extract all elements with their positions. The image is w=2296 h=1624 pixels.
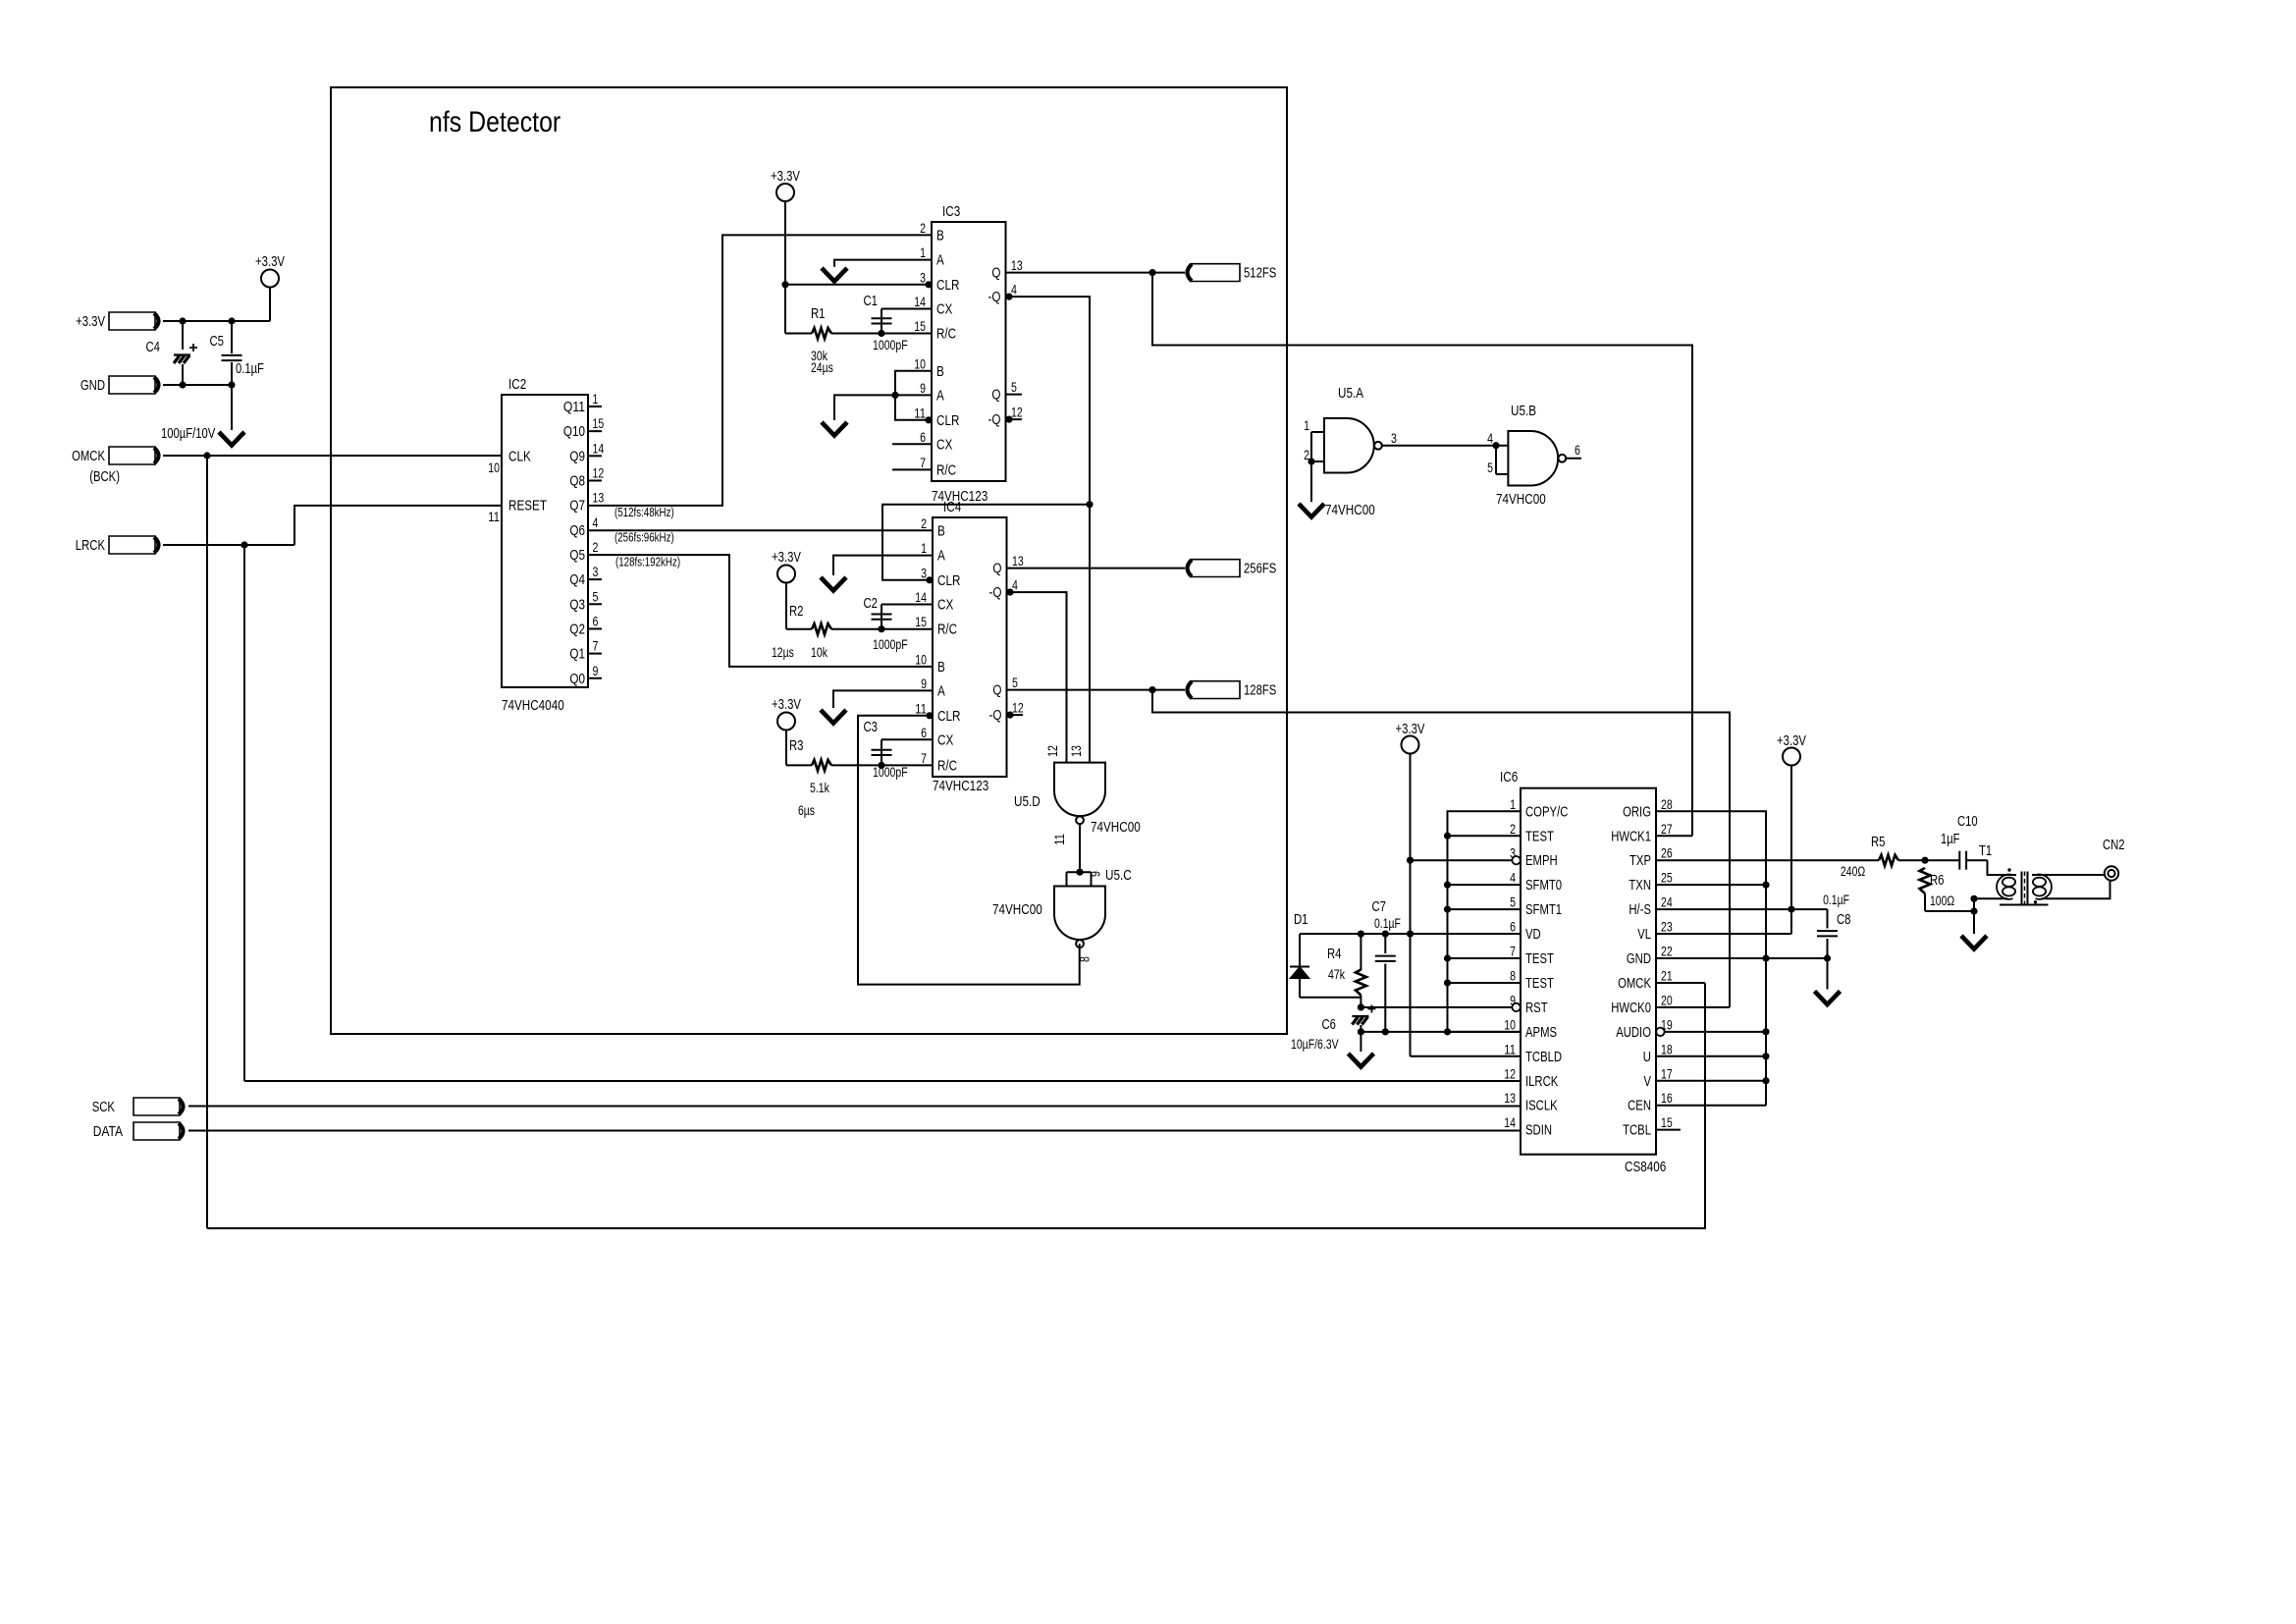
svg-text:240Ω: 240Ω: [1841, 864, 1865, 879]
wire 128FS to HWCK0: [1152, 690, 1730, 1007]
svg-text:Q6: Q6: [569, 522, 585, 539]
svg-text:6µs: 6µs: [798, 803, 815, 818]
ground at IC4 pin 9: [821, 710, 846, 724]
power +3.3V for R1: [776, 184, 794, 201]
svg-text:10µF/6.3V: 10µF/6.3V: [1291, 1037, 1339, 1052]
svg-text:6: 6: [593, 614, 599, 628]
svg-text:Q: Q: [992, 561, 1001, 577]
svg-text:12: 12: [593, 465, 605, 480]
svg-text:Q9: Q9: [569, 448, 585, 464]
IC3 pin 10 B / 11 CLR tie: [895, 371, 932, 420]
svg-text:Q11: Q11: [563, 399, 585, 415]
svg-text:CN2: CN2: [2103, 838, 2125, 853]
IC6 RST pin9 bubble: [1512, 1003, 1520, 1011]
svg-text:2: 2: [593, 540, 599, 555]
svg-text:-Q: -Q: [988, 411, 1001, 428]
svg-text:SFMT0: SFMT0: [1525, 878, 1562, 893]
svg-text:B: B: [937, 522, 945, 539]
ground at IC3 pin 9: [822, 422, 847, 436]
svg-text:GND: GND: [80, 378, 105, 394]
svg-text:1: 1: [921, 541, 927, 556]
svg-text:9: 9: [920, 381, 926, 396]
svg-text:1: 1: [1510, 797, 1516, 812]
svg-text:R6: R6: [1930, 873, 1945, 889]
svg-text:C2: C2: [864, 596, 879, 612]
svg-text:SFMT1: SFMT1: [1525, 902, 1562, 918]
svg-text:Q2: Q2: [569, 621, 585, 637]
connector 128FS: [1188, 681, 1193, 698]
IC2 pin 14 Q9: [588, 455, 602, 457]
svg-text:4: 4: [1510, 871, 1516, 886]
svg-text:+3.3V: +3.3V: [1777, 733, 1806, 749]
svg-text:C3: C3: [864, 720, 879, 735]
svg-text:OMCK: OMCK: [1618, 976, 1651, 992]
svg-text:CX: CX: [936, 436, 952, 453]
svg-text:Q10: Q10: [563, 423, 585, 440]
svg-text:5.1k: 5.1k: [810, 781, 829, 795]
svg-text:5: 5: [1011, 380, 1017, 395]
IC3 -Q pin4 wire to U5.D pin13: [1005, 294, 1012, 300]
svg-text:A: A: [936, 252, 944, 269]
svg-text:20: 20: [1661, 993, 1673, 1007]
U5.B input pins 4,5: [1495, 446, 1497, 474]
wire SCK to ISCLK: [188, 1106, 1521, 1108]
svg-text:TXP: TXP: [1629, 853, 1651, 869]
svg-text:18: 18: [1661, 1042, 1673, 1056]
svg-text:23: 23: [1661, 920, 1673, 935]
wire T1 secondary top to CN2: [2032, 874, 2105, 876]
svg-text:U5.B: U5.B: [1511, 403, 1536, 419]
svg-text:74VHC4040: 74VHC4040: [502, 697, 564, 714]
svg-text:APMS: APMS: [1525, 1025, 1557, 1041]
wire OMCK vertical down to bottom return: [206, 456, 208, 1228]
svg-text:+3.3V: +3.3V: [1396, 722, 1425, 737]
svg-text:C6: C6: [1322, 1017, 1337, 1033]
svg-text:2: 2: [1510, 822, 1516, 837]
capacitor C7 0.1uF: [1384, 934, 1386, 953]
svg-text:Q: Q: [991, 387, 1000, 404]
svg-text:V: V: [1644, 1074, 1652, 1090]
svg-text:5: 5: [1012, 676, 1018, 690]
T1 core: [2021, 872, 2023, 905]
svg-text:H/-S: H/-S: [1629, 902, 1651, 918]
wire TCBL pin15 stub: [1656, 1129, 1681, 1131]
svg-text:0.1µF: 0.1µF: [1823, 893, 1849, 907]
svg-text:TEST: TEST: [1525, 951, 1554, 967]
T1 base line: [2000, 904, 2049, 906]
svg-text:C4: C4: [146, 340, 161, 355]
svg-text:15: 15: [1661, 1115, 1673, 1130]
svg-text:AUDIO: AUDIO: [1616, 1025, 1651, 1041]
svg-text:C8: C8: [1837, 912, 1851, 928]
svg-text:11: 11: [488, 510, 500, 524]
svg-text:16: 16: [1661, 1091, 1673, 1106]
svg-text:VL: VL: [1637, 927, 1651, 943]
wire IC6 right tie bus ORIG TXN GND AUDIO U V CEN: [1656, 811, 1766, 1105]
IC4 pin 11 CLR wire from U5.C output: [926, 712, 933, 719]
svg-text:CLR: CLR: [937, 708, 961, 725]
svg-text:13: 13: [1011, 258, 1023, 273]
svg-text:15: 15: [593, 416, 605, 431]
svg-text:TEST: TEST: [1525, 829, 1554, 844]
svg-text:CX: CX: [936, 301, 952, 318]
IC3 74VHC123 monostable: [932, 222, 1006, 481]
resistor R2 10k: [786, 628, 812, 630]
wire VL pin23: [1656, 933, 1791, 935]
IC3 pin 6 CX stub: [892, 443, 932, 445]
wire OMCK to IC2 CLK: [163, 455, 502, 457]
svg-text:74VHC123: 74VHC123: [933, 778, 988, 794]
svg-text:IC4: IC4: [943, 499, 961, 515]
IC2 pin 12 Q8: [588, 479, 602, 481]
IC2 pin 7 Q1: [588, 653, 602, 655]
nand U5.C 74VHC00: [1054, 887, 1105, 941]
wire U5.A out to U5.B in: [1382, 445, 1509, 447]
svg-text:Q3: Q3: [569, 596, 585, 613]
svg-text:74VHC00: 74VHC00: [1091, 819, 1141, 836]
IC6 EMPH pin3 bubble: [1512, 856, 1520, 864]
capacitor C6 10uF/6.3V electrolytic: [1352, 1017, 1367, 1025]
ground below C6: [1348, 1054, 1373, 1067]
svg-text:TEST: TEST: [1525, 976, 1554, 992]
svg-text:SCK: SCK: [92, 1100, 116, 1115]
svg-text:R/C: R/C: [936, 326, 956, 343]
svg-text:Q4: Q4: [569, 571, 585, 588]
svg-text:U5.C: U5.C: [1105, 867, 1132, 884]
svg-text:8: 8: [1510, 968, 1516, 983]
svg-text:13: 13: [1504, 1091, 1516, 1106]
wire IC2 Q7 512fs to IC3 B: [588, 235, 932, 506]
svg-text:C10: C10: [1957, 814, 1978, 830]
svg-text:512FS: 512FS: [1244, 266, 1276, 282]
svg-text:Q0: Q0: [569, 671, 585, 687]
svg-text:256FS: 256FS: [1244, 562, 1276, 577]
svg-text:TCBLD: TCBLD: [1525, 1050, 1562, 1065]
svg-text:C5: C5: [210, 334, 225, 350]
IC4 pin 3 CLR wire to IC3 -Q net: [926, 576, 933, 583]
svg-text:24: 24: [1661, 895, 1673, 910]
svg-text:3: 3: [921, 566, 927, 580]
IC6 CS8406 digital audio transmitter: [1521, 788, 1656, 1155]
IC2 pin 6 Q2: [588, 627, 602, 629]
wire GND rail: [163, 384, 232, 386]
svg-text:COPY/C: COPY/C: [1525, 804, 1568, 820]
svg-text:+3.3V: +3.3V: [76, 314, 105, 330]
capacitor C4 100uF/10V: [182, 321, 184, 350]
svg-text:13: 13: [1012, 554, 1024, 568]
svg-text:CLK: CLK: [508, 448, 531, 464]
capacitor C10 1uF: [1958, 851, 1960, 870]
svg-text:VD: VD: [1525, 927, 1541, 943]
svg-text:HWCK0: HWCK0: [1611, 1001, 1651, 1016]
svg-text:12µs: 12µs: [772, 645, 794, 660]
svg-text:HWCK1: HWCK1: [1611, 829, 1651, 844]
svg-text:11: 11: [1504, 1042, 1516, 1056]
svg-text:TXN: TXN: [1629, 878, 1651, 893]
wire IC2 Q5 128fs to IC4 lower B: [588, 555, 933, 667]
svg-text:2: 2: [921, 516, 927, 531]
svg-text:nfs Detector: nfs Detector: [429, 106, 561, 138]
capacitor C1 1000pF: [881, 309, 882, 334]
ground at IC3 A: [822, 268, 847, 282]
svg-text:Q1: Q1: [569, 646, 585, 663]
IC3 pin 1 A wire to ground: [834, 260, 932, 267]
svg-text:(BCK): (BCK): [89, 469, 120, 485]
svg-text:10: 10: [488, 460, 500, 475]
svg-text:12: 12: [1045, 745, 1060, 757]
T1 secondary winding: [2036, 875, 2052, 899]
wire U5.D output pin 11 to U5.C inputs: [1079, 824, 1081, 872]
svg-text:U: U: [1643, 1050, 1651, 1065]
svg-text:B: B: [936, 227, 944, 244]
IC3 Q pin5 stub: [1006, 394, 1023, 396]
svg-text:2: 2: [1304, 448, 1309, 462]
svg-text:A: A: [936, 387, 944, 404]
svg-text:7: 7: [920, 456, 926, 470]
wire HWCK0 pin20: [1656, 1006, 1730, 1008]
svg-text:R/C: R/C: [937, 622, 957, 638]
svg-text:14: 14: [914, 295, 926, 309]
svg-text:ORIG: ORIG: [1623, 804, 1651, 820]
svg-text:14: 14: [1504, 1115, 1516, 1130]
svg-text:74VHC00: 74VHC00: [1496, 491, 1546, 508]
wire IC6 left bus pins 1,2,4,5,7,8,10: [1448, 811, 1522, 1032]
resistor R1 30k: [785, 333, 812, 335]
svg-text:11: 11: [914, 406, 926, 420]
svg-text:-Q: -Q: [989, 584, 1002, 601]
svg-text:27: 27: [1661, 822, 1673, 837]
wire T1 primary bottom: [1974, 897, 2007, 899]
svg-text:9: 9: [921, 677, 927, 691]
svg-text:3: 3: [920, 270, 926, 285]
capacitor C2 1000pF: [881, 605, 882, 629]
svg-text:ISCLK: ISCLK: [1525, 1099, 1558, 1114]
ground below C8: [1815, 992, 1841, 1005]
diode D1: [1299, 934, 1301, 966]
IC3 Q pin13 wire to 512FS: [1006, 272, 1186, 274]
wire RST pin9 row: [1361, 1006, 1512, 1008]
wire EMPH pin3: [1411, 859, 1513, 861]
resistor R6 100ohm: [1920, 868, 1931, 893]
IC4 Q pin5 wire to 128FS: [1007, 689, 1186, 691]
nand U5.D 74VHC00: [1054, 763, 1105, 817]
svg-text:B: B: [937, 659, 945, 676]
svg-text:100Ω: 100Ω: [1930, 893, 1954, 908]
svg-text:1000pF: 1000pF: [873, 637, 908, 652]
wire HWCK1 pin27: [1656, 835, 1692, 837]
svg-text:1: 1: [593, 392, 599, 406]
svg-text:R3: R3: [789, 738, 804, 754]
svg-text:CLR: CLR: [937, 572, 961, 589]
svg-text:OMCK: OMCK: [72, 449, 105, 464]
svg-text:R4: R4: [1327, 947, 1342, 962]
svg-text:12: 12: [1011, 406, 1023, 420]
svg-text:15: 15: [915, 615, 927, 629]
wire OMCK pin21 feedback: [1656, 982, 1705, 984]
wire ILRCK bus: [244, 1080, 1521, 1082]
ground below C5: [231, 385, 233, 430]
connector OMCK (BCK) input: [109, 447, 155, 464]
capacitor C5 0.1uF: [231, 321, 233, 353]
svg-text:10: 10: [914, 356, 926, 371]
IC3 pin 7 R/C stub: [892, 468, 932, 470]
svg-text:11: 11: [915, 701, 927, 716]
IC4 74VHC123 monostable: [933, 517, 1007, 777]
svg-text:14: 14: [593, 441, 605, 456]
svg-text:GND: GND: [1627, 951, 1651, 967]
connector LRCK input: [109, 536, 155, 554]
svg-text:+3.3V: +3.3V: [772, 550, 801, 566]
svg-text:100µF/10V: 100µF/10V: [161, 426, 216, 442]
svg-text:8: 8: [1078, 956, 1093, 962]
svg-text:28: 28: [1661, 797, 1673, 812]
power +3.3V for R3: [777, 713, 795, 731]
IC3 pin 9 A wire to ground: [834, 395, 932, 420]
svg-text:D1: D1: [1294, 912, 1308, 928]
resistor R3 5.1k: [786, 764, 812, 766]
svg-text:3: 3: [1391, 431, 1397, 446]
svg-text:T1: T1: [1979, 843, 1992, 859]
wire +3.3V rail: [163, 320, 270, 322]
svg-text:RST: RST: [1525, 1001, 1548, 1016]
wire TXP pin26 to R5: [1656, 859, 1879, 861]
svg-text:LRCK: LRCK: [76, 538, 105, 554]
svg-text:128FS: 128FS: [1244, 683, 1276, 699]
svg-text:CX: CX: [937, 597, 953, 614]
svg-text:22: 22: [1661, 945, 1673, 959]
svg-text:SDIN: SDIN: [1525, 1123, 1552, 1139]
svg-text:+3.3V: +3.3V: [255, 254, 285, 270]
svg-text:U5.A: U5.A: [1338, 385, 1363, 402]
svg-text:13: 13: [1069, 745, 1084, 757]
IC2 pin 5 Q3: [588, 603, 602, 605]
svg-text:B: B: [936, 363, 944, 380]
svg-text:C7: C7: [1372, 899, 1387, 915]
svg-text:ILRCK: ILRCK: [1525, 1074, 1559, 1090]
svg-text:7: 7: [1510, 945, 1516, 959]
wire LRCK to RESET: [163, 544, 294, 546]
svg-text:10k: 10k: [811, 645, 828, 660]
svg-text:5: 5: [1487, 460, 1493, 475]
svg-text:12: 12: [1504, 1066, 1516, 1081]
svg-text:IC2: IC2: [508, 376, 526, 393]
svg-text:-Q: -Q: [989, 707, 1002, 724]
svg-text:R/C: R/C: [936, 461, 956, 478]
svg-text:1: 1: [1304, 418, 1309, 433]
wire LRCK vertical down to ILRCK: [243, 545, 245, 1081]
svg-text:A: A: [937, 548, 945, 565]
svg-text:1000pF: 1000pF: [873, 765, 908, 780]
IC3 -Q pin12 stub: [1005, 416, 1012, 423]
svg-text:9: 9: [593, 664, 599, 678]
svg-text:EMPH: EMPH: [1525, 853, 1558, 869]
svg-text:IC6: IC6: [1500, 769, 1518, 785]
svg-text:+3.3V: +3.3V: [771, 169, 800, 185]
svg-text:17: 17: [1661, 1066, 1673, 1081]
svg-text:74VHC00: 74VHC00: [1325, 502, 1375, 518]
svg-text:A: A: [937, 682, 945, 699]
IC6 AUDIO pin19 bubble: [1656, 1028, 1664, 1036]
svg-text:6: 6: [1510, 920, 1516, 935]
svg-text:IC3: IC3: [942, 203, 960, 220]
nfs Detector block box: [331, 87, 1287, 1034]
wire VD pin6 row: [1300, 933, 1521, 935]
IC2 pin 3 Q4: [588, 578, 602, 580]
svg-text:U5.D: U5.D: [1014, 793, 1041, 810]
svg-text:Q: Q: [992, 682, 1001, 699]
IC4 pin 1 A wire to ground: [833, 556, 933, 575]
IC2 pin 1 Q11: [588, 406, 602, 407]
wire T1 secondary bottom to CN2: [2042, 881, 2110, 899]
power +3.3V for R2: [777, 566, 795, 583]
svg-text:11: 11: [1052, 834, 1067, 845]
wire IC2 Q6 256fs to IC4 B: [588, 529, 933, 531]
svg-text:TCBL: TCBL: [1623, 1123, 1651, 1139]
svg-text:(256fs:96kHz): (256fs:96kHz): [614, 531, 674, 545]
svg-text:RESET: RESET: [508, 498, 547, 514]
svg-text:4: 4: [593, 515, 599, 530]
svg-text:10: 10: [915, 652, 927, 667]
svg-text:74VHC00: 74VHC00: [992, 901, 1042, 918]
U5.A input pins 1,2 tied to ground: [1311, 431, 1324, 433]
svg-text:+3.3V: +3.3V: [772, 697, 801, 713]
svg-text:-Q: -Q: [988, 289, 1001, 305]
svg-text:6: 6: [1575, 443, 1580, 458]
IC4 pin 9 A wire to ground: [833, 690, 933, 708]
svg-text:Q7: Q7: [569, 498, 585, 514]
wire 512FS to HWCK1: [1152, 273, 1692, 837]
U5.B output pin 6 stub: [1566, 458, 1581, 460]
svg-text:R5: R5: [1871, 835, 1886, 850]
connector SCK input: [133, 1098, 180, 1115]
svg-text:CS8406: CS8406: [1625, 1159, 1666, 1175]
svg-text:13: 13: [593, 491, 605, 506]
svg-text:25: 25: [1661, 871, 1673, 886]
svg-text:R1: R1: [811, 306, 826, 322]
wire DATA to SDIN: [188, 1130, 1521, 1132]
svg-text:1µF: 1µF: [1941, 832, 1960, 847]
svg-text:CLR: CLR: [936, 412, 960, 429]
wire C6 to ground: [1360, 1032, 1362, 1052]
svg-text:Q8: Q8: [569, 472, 585, 489]
svg-text:10: 10: [1504, 1017, 1516, 1032]
ground at IC4 A: [821, 577, 846, 591]
svg-text:DATA: DATA: [93, 1124, 123, 1140]
svg-text:(512fs:48kHz): (512fs:48kHz): [614, 506, 674, 519]
svg-text:R/C: R/C: [937, 757, 957, 774]
IC4 -Q pin12 stub: [1006, 712, 1013, 719]
svg-text:5: 5: [593, 589, 599, 604]
wire +3.3V vertical EMPH TCBLD: [1410, 754, 1412, 1056]
IC2 pin 15 Q10: [588, 430, 602, 432]
T1 polarity dots: [2007, 868, 2010, 871]
svg-text:CEN: CEN: [1628, 1099, 1651, 1114]
connector GND input: [109, 376, 155, 394]
svg-text:47k: 47k: [1328, 967, 1345, 982]
svg-text:6: 6: [920, 430, 926, 445]
svg-text:26: 26: [1661, 846, 1673, 861]
connector CN2 RCA jack: [2105, 866, 2118, 880]
svg-text:Q: Q: [991, 265, 1000, 282]
svg-text:24µs: 24µs: [811, 360, 833, 375]
power +3.3V for VL H/-S: [1783, 748, 1800, 766]
svg-text:19: 19: [1661, 1017, 1673, 1032]
svg-text:2: 2: [920, 221, 926, 236]
svg-text:14: 14: [915, 590, 927, 605]
IC4 Q pin13 wire to 256FS: [1007, 568, 1186, 569]
connector 256FS: [1188, 560, 1193, 576]
IC2 pin 9 Q0: [588, 677, 602, 679]
